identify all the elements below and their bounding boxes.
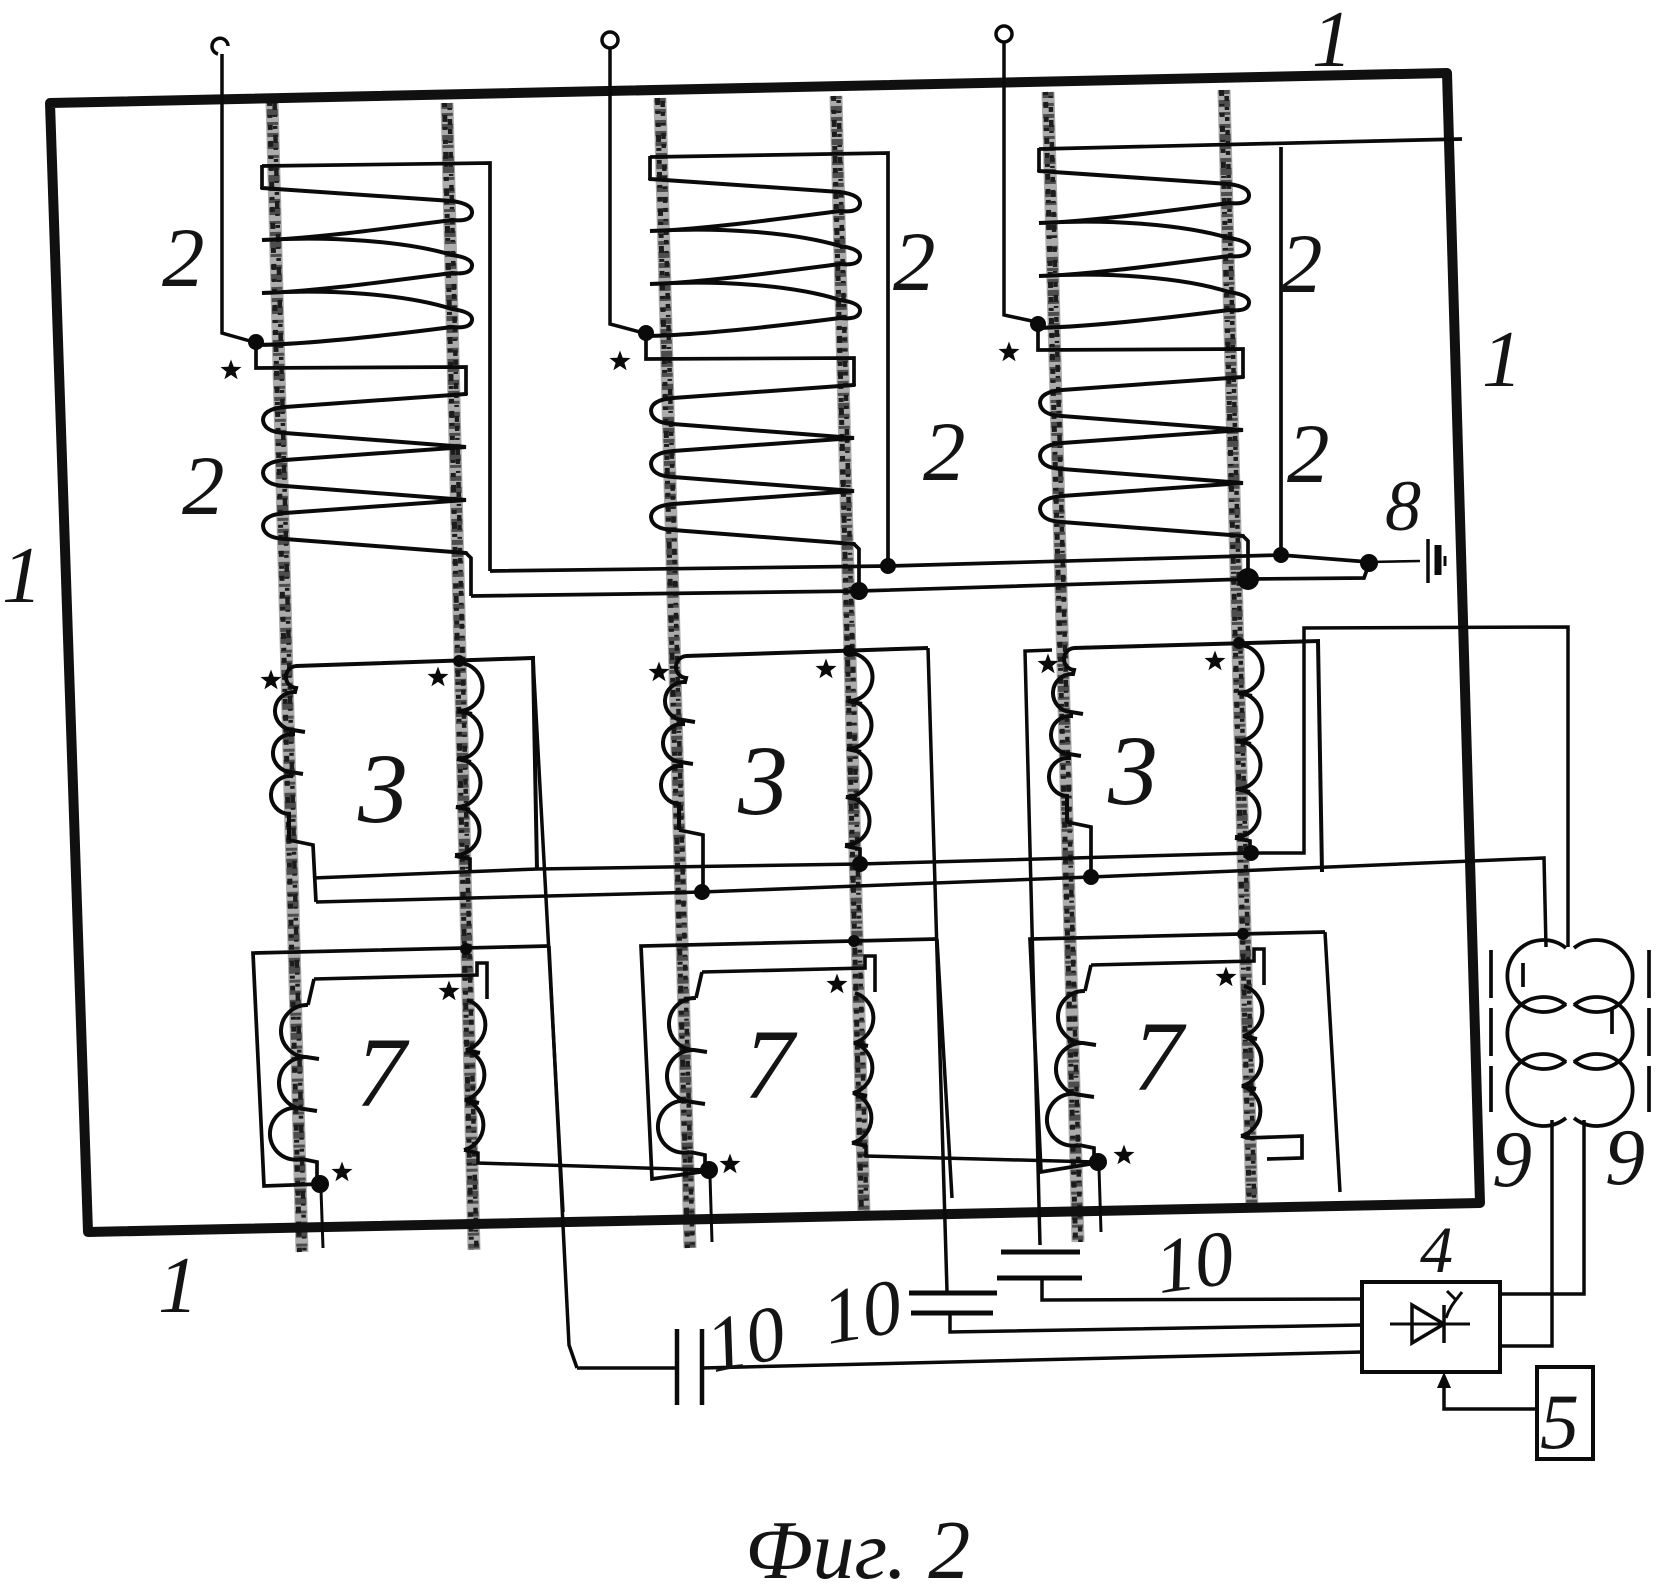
wire winding 3 B down to capacitor xyxy=(928,648,947,1291)
terminal B xyxy=(602,32,618,48)
wire winding 7 A to capacitor 10a xyxy=(549,946,577,1368)
winding 3 phase B right step xyxy=(845,846,860,864)
winding 3 phase A left coil xyxy=(271,666,305,840)
svg-text:3: 3 xyxy=(357,733,408,844)
winding 7 phase A box top xyxy=(314,963,487,999)
node winding 7 C bottom xyxy=(1089,1153,1107,1171)
polarity marks winding 3 C xyxy=(1038,654,1059,674)
wire capacitor 10b to rectifier xyxy=(950,1313,1362,1332)
winding 7 phase C box top xyxy=(1091,949,1264,985)
winding 3 phase A left step xyxy=(289,840,316,902)
winding 3 phase B right coil xyxy=(845,653,873,845)
node 3-row right bus B xyxy=(852,856,868,872)
coil 9 left arcs xyxy=(1507,940,1566,1126)
svg-text:7: 7 xyxy=(356,1017,410,1128)
winding 3 phase C box xyxy=(1074,641,1322,872)
capacitor 10a xyxy=(677,1329,702,1405)
node 3-row left bus B xyxy=(694,884,710,900)
winding 3 phase C left coil xyxy=(1049,648,1083,822)
node winding 7 A top-right xyxy=(460,943,472,955)
polarity marks winding 7 B xyxy=(827,974,848,994)
winding 3 phase C right step xyxy=(1235,838,1250,853)
wire terminal C down xyxy=(1004,42,1032,321)
capacitor 10b xyxy=(909,1293,997,1313)
winding 2 phase A upper start bracket xyxy=(260,165,264,188)
winding 2 phase A upper group xyxy=(258,188,472,345)
winding 7 phase C left step xyxy=(1079,1145,1094,1162)
svg-text:9: 9 xyxy=(1605,1114,1645,1202)
node winding 3 C top xyxy=(1233,637,1245,649)
node phase B tap xyxy=(638,325,654,341)
polarity mark phase B xyxy=(610,351,631,371)
wire winding 7 C outer right xyxy=(1325,932,1340,1192)
winding 7 phase A left step xyxy=(302,1159,317,1184)
rectifier 4 box xyxy=(1362,1282,1500,1372)
core leg bar B-right xyxy=(834,96,867,1215)
ground electrode 8 xyxy=(1428,539,1445,583)
wire capacitor 10a left xyxy=(577,1366,677,1370)
wire neutral bus upper xyxy=(490,555,1369,571)
winding 3 phase A right coil xyxy=(455,663,483,855)
svg-text:2: 2 xyxy=(162,211,205,305)
svg-text:10: 10 xyxy=(816,1262,908,1361)
wire capacitor 10a right to rectifier xyxy=(702,1352,1362,1368)
wire to ground 8 xyxy=(1369,561,1420,562)
winding 3 phase B box xyxy=(686,648,928,656)
winding 2 phase B upper start bracket xyxy=(648,156,652,179)
wire bus of 3-row left coils xyxy=(316,858,1546,947)
node bus lower B xyxy=(850,582,868,600)
winding 7 phase B box top xyxy=(702,956,875,992)
svg-text:7: 7 xyxy=(744,1009,798,1120)
wire neutral bus lower xyxy=(471,564,1369,596)
winding 3 phase C right coil xyxy=(1235,645,1263,837)
winding 2 phase C upper group xyxy=(1035,171,1249,328)
wire phase A tap to lower bracket xyxy=(256,344,466,394)
wire phase C top line to frame xyxy=(1039,139,1462,149)
wire terminal A down xyxy=(222,54,250,341)
svg-text:9: 9 xyxy=(1492,1116,1532,1204)
node winding 7 C top-right xyxy=(1237,928,1249,940)
svg-text:3: 3 xyxy=(1107,715,1158,826)
svg-text:1: 1 xyxy=(2,532,42,620)
polarity mark phase A xyxy=(221,360,242,380)
wire phase B tap to lower bracket xyxy=(646,335,854,385)
node winding 3 B top xyxy=(843,645,855,657)
winding 3 phase A box xyxy=(296,658,537,870)
wire phase A top line xyxy=(262,163,490,571)
node bus B xyxy=(880,558,896,574)
winding 3 phase C left step xyxy=(1067,822,1091,877)
node phase A tap xyxy=(248,334,264,350)
winding 7 phase A left coil xyxy=(308,979,314,1005)
arrow into rectifier xyxy=(1437,1372,1451,1388)
node bus lower C xyxy=(1237,568,1259,590)
svg-text:2: 2 xyxy=(182,439,225,533)
wire phase B winding exit step xyxy=(854,544,859,591)
wire phase A winding exit step xyxy=(466,553,471,596)
winding 7 phase B left step xyxy=(690,1152,705,1170)
winding 7 phase C end bracket xyxy=(1241,1136,1302,1159)
node bus C xyxy=(1273,547,1289,563)
winding 7 phase B right step and link to C xyxy=(852,1143,1096,1162)
polarity mark phase C xyxy=(999,342,1020,362)
capacitor 10c xyxy=(997,1252,1082,1278)
coil 9 right arcs xyxy=(1574,940,1633,1126)
winding 7 phase B outer loop xyxy=(641,939,937,1179)
winding 7 phase C right coil xyxy=(1241,986,1262,1136)
svg-text:1: 1 xyxy=(158,1242,198,1330)
wire rectifier to coil 9 left xyxy=(1500,1120,1552,1346)
winding 7 phase B left coil xyxy=(696,972,702,998)
svg-text:7: 7 xyxy=(1133,1001,1187,1112)
winding 7 phase C left coil xyxy=(1085,965,1091,991)
wire terminal B down xyxy=(610,48,640,332)
wire phase C outer drop xyxy=(1279,147,1283,555)
winding 2 phase A lower group xyxy=(263,394,466,553)
wire rectifier to control unit 5 xyxy=(1444,1378,1537,1409)
wire rectifier to coil 9 right xyxy=(1500,1120,1584,1294)
svg-text:2: 2 xyxy=(893,215,936,309)
frame 1 (magnetic conductor outline) xyxy=(50,73,1480,1232)
svg-text:5: 5 xyxy=(1540,1378,1579,1465)
svg-text:2: 2 xyxy=(923,405,966,499)
core leg bar A-left xyxy=(270,100,305,1252)
polarity marks winding 7 C xyxy=(1216,967,1237,987)
svg-text:2: 2 xyxy=(1287,407,1330,501)
node ground junction xyxy=(1360,554,1378,572)
wire phase B top line xyxy=(650,153,888,566)
node 3-row left bus C xyxy=(1083,869,1099,885)
terminal C xyxy=(996,26,1012,42)
winding 7 phase B right coil xyxy=(852,993,873,1143)
svg-text:10: 10 xyxy=(1150,1213,1239,1310)
winding 2 phase B lower group xyxy=(651,385,854,544)
node 3-row right bus C xyxy=(1243,845,1259,861)
polarity marks winding 3 A xyxy=(261,670,282,690)
wire tail below frame B xyxy=(710,1176,712,1242)
svg-text:1: 1 xyxy=(1482,316,1522,404)
node phase C tap xyxy=(1030,316,1046,332)
winding 7 phase A right step and link to B xyxy=(464,1150,709,1170)
wire tail below frame A xyxy=(321,1190,323,1248)
node winding 7 A bottom xyxy=(311,1175,329,1193)
wire bus of 3-row right coils xyxy=(313,627,1568,947)
wire phase C winding exit step xyxy=(1243,536,1248,579)
winding 3 phase A right step xyxy=(455,856,470,873)
node winding 3 A top xyxy=(453,655,465,667)
coil 9 core dashes xyxy=(1491,950,1649,1112)
wire winding 3 A down to bottom bus xyxy=(533,658,563,1212)
winding 2 phase B upper group xyxy=(646,179,860,336)
svg-text:Фиг. 2: Фиг. 2 xyxy=(745,1504,970,1590)
winding 3 phase B left coil xyxy=(661,656,695,830)
winding 2 phase C upper start bracket xyxy=(1037,148,1041,171)
svg-text:4: 4 xyxy=(1420,1214,1453,1287)
winding 7 phase A outer loop xyxy=(253,946,549,1186)
core leg bar C-left xyxy=(1046,92,1081,1242)
winding 7 phase A right coil xyxy=(464,1000,485,1150)
svg-text:3: 3 xyxy=(737,725,788,836)
polarity marks winding 3 B xyxy=(649,662,670,682)
winding 3 phase B left step xyxy=(679,830,703,891)
winding 7 phase C outer loop xyxy=(1030,932,1325,1172)
core leg bar B-left xyxy=(658,98,693,1248)
terminal A xyxy=(212,38,228,54)
wire phase C tap to lower bracket xyxy=(1038,326,1243,376)
wire winding 7 B outer right xyxy=(937,939,952,1198)
core leg bar C-right xyxy=(1222,90,1255,1212)
node winding 7 B bottom xyxy=(700,1161,718,1179)
node winding 7 B top-right xyxy=(848,935,860,947)
core leg bar A-right xyxy=(445,103,477,1250)
wire tail below frame C xyxy=(1099,1168,1101,1232)
winding 2 phase C lower group xyxy=(1040,377,1243,536)
rectifier 4 thyristor symbol xyxy=(1390,1291,1470,1343)
control unit 5 box xyxy=(1537,1367,1593,1459)
svg-text:1: 1 xyxy=(1312,0,1352,84)
wire capacitor 10c to rectifier xyxy=(1042,1278,1362,1300)
wire winding 3 C tap down to capacitor xyxy=(1025,650,1052,1245)
polarity marks winding 7 A xyxy=(439,981,460,1001)
svg-text:2: 2 xyxy=(1280,217,1323,311)
svg-text:8: 8 xyxy=(1385,466,1421,546)
